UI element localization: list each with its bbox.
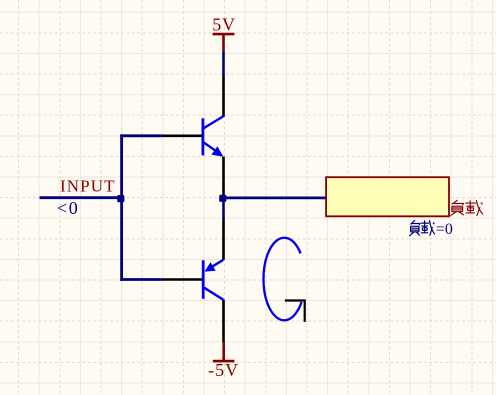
annotation arc bbox=[263, 238, 301, 321]
svg-text:=0: =0 bbox=[436, 221, 453, 238]
wire 5V to Q1 bbox=[222, 52, 225, 77]
value label 负载 bbox=[450, 200, 483, 216]
wire bottom base bbox=[120, 278, 162, 281]
wire left vertical bbox=[120, 134, 123, 281]
load rectangle bbox=[326, 177, 449, 216]
transistor Q2 bbox=[162, 219, 224, 342]
transistor Q1 bbox=[162, 76, 224, 196]
wire top base bbox=[120, 134, 162, 137]
svg-text:INPUT: INPUT bbox=[60, 177, 116, 196]
wire output bbox=[224, 196, 327, 199]
svg-text:<0: <0 bbox=[57, 198, 79, 218]
svg-text:-5V: -5V bbox=[208, 360, 239, 380]
power port -5V bbox=[208, 342, 239, 380]
svg-text:5V: 5V bbox=[212, 14, 236, 34]
power port 5V bbox=[212, 14, 236, 51]
wire to Q2 bbox=[222, 201, 225, 219]
wire INPUT bbox=[40, 196, 122, 199]
annotation arrow corner bbox=[285, 301, 305, 322]
junction output bbox=[219, 195, 226, 202]
junction left bbox=[117, 195, 124, 202]
value label 负载=0 bbox=[409, 220, 453, 238]
